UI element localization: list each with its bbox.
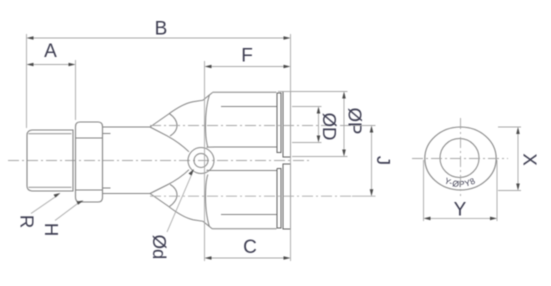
upper dome tip arc <box>170 114 178 136</box>
svg-text:B: B <box>155 19 168 40</box>
thread R1 (male taper thread) <box>27 130 73 192</box>
svg-text:J: J <box>373 156 394 165</box>
dimension B <box>27 19 291 40</box>
upper cylinder <box>213 92 277 147</box>
body stem <box>103 127 151 194</box>
end view marking text <box>443 175 477 189</box>
upper cap <box>283 92 291 158</box>
svg-text:Ød: Ød <box>149 235 170 260</box>
svg-text:ØD: ØD <box>319 113 340 141</box>
svg-text:X: X <box>520 153 541 165</box>
lower dome/cylinder boundary arc <box>206 175 210 228</box>
lower release ring <box>277 169 281 229</box>
leader and label R <box>17 193 61 228</box>
end view horizontal centerline <box>412 158 508 160</box>
hex nut H1 <box>76 122 103 202</box>
svg-text:C: C <box>243 237 257 258</box>
lower dome (port bulge) <box>150 170 215 229</box>
lower dome tip arc <box>170 184 178 206</box>
svg-text:F: F <box>241 46 253 67</box>
upper dome/cylinder boundary arc <box>206 95 210 148</box>
extension line x=290.5 <box>290 34 292 261</box>
dimension Y <box>424 160 498 221</box>
extension line x=75.5 <box>75 60 77 120</box>
dimension ØD <box>292 107 340 143</box>
dimension ØP <box>278 92 366 157</box>
extension line x=204.5 <box>204 61 206 261</box>
svg-text:ØP: ØP <box>345 108 366 135</box>
dimension J <box>352 126 394 197</box>
main centerline <box>8 160 312 162</box>
end view inner circle <box>440 139 479 178</box>
extension line x=26.5 <box>26 34 28 128</box>
dimension C <box>205 237 291 260</box>
upper dome (port bulge) <box>150 93 215 152</box>
end view outer ellipse <box>425 127 496 190</box>
upper port axis centerline <box>150 125 351 127</box>
leader and label Ød <box>149 169 194 259</box>
svg-text:R: R <box>17 215 38 228</box>
dimension X <box>498 127 541 191</box>
lower cap <box>283 164 291 229</box>
upper release ring <box>277 93 281 153</box>
end view vertical centerline <box>460 118 462 196</box>
leader and label H <box>41 201 84 237</box>
orifice circle Ød <box>188 148 214 174</box>
lower port axis centerline <box>150 195 351 197</box>
svg-text:H: H <box>41 223 62 236</box>
dimension A <box>27 41 76 66</box>
svg-text:Y: Y <box>454 200 467 221</box>
svg-text:A: A <box>44 41 57 62</box>
lower cylinder <box>213 171 277 229</box>
dimension F <box>205 46 291 69</box>
